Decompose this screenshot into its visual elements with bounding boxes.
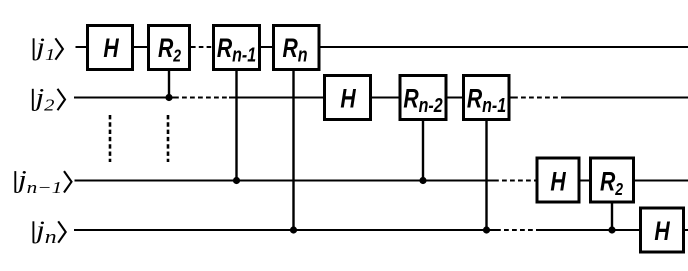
gate R2 q1 (149, 26, 190, 70)
gate Rn-1 q1 (214, 26, 260, 70)
control dot on q3 at Rn-1 (233, 177, 240, 184)
gate H q3 (537, 158, 579, 202)
label ket jn-1 (14, 166, 72, 197)
control line R2(q3)->q4 (611, 201, 613, 230)
control dot on q2 at R2 (165, 94, 172, 101)
control line R2(q1)->q2 (168, 69, 170, 98)
wire q3 (75, 180, 688, 182)
gate Rn-2 q2 (400, 76, 446, 120)
wire q4 (74, 229, 688, 231)
vertical ellipsis dashed line left (109, 115, 112, 162)
vertical ellipsis dashed line right (167, 115, 170, 162)
svg-text:H: H (103, 34, 119, 64)
control dot on q4 at Rn (290, 226, 297, 233)
control dot on q3 at Rn-2 (419, 177, 426, 184)
label ket j2 (31, 84, 65, 115)
gate H q1 (88, 26, 133, 70)
label ket j1 (32, 34, 63, 65)
gate H q4 (641, 208, 684, 252)
control line Rn-1(q2)->q4 (485, 119, 487, 230)
control line Rn-1(q1)->q3 (235, 69, 237, 181)
gate H q2 (325, 76, 371, 120)
dashed wire between H and Rn-2 on q2 (374, 97, 398, 99)
gate Rn q1 (274, 26, 320, 70)
gate R2 q3 (591, 158, 634, 202)
control dot on q4 at R2(q3) (608, 226, 615, 233)
wire q1 (76, 46, 688, 48)
svg-text:H: H (340, 85, 356, 115)
svg-text:H: H (550, 168, 566, 198)
control line Rn(q1)->q4 (292, 69, 294, 230)
control dot on q4 at Rn-1(q2) (483, 226, 490, 233)
svg-text:H: H (654, 217, 670, 247)
wire q2 (74, 97, 688, 99)
label ket jn (32, 217, 66, 248)
control line Rn-2(q2)->q3 (422, 119, 424, 181)
gate Rn-1 q2 (464, 76, 510, 120)
